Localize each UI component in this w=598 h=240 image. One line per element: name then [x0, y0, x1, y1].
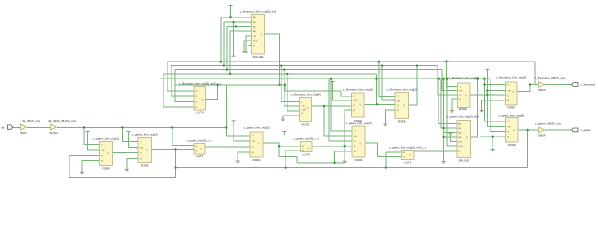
const bar x233.5 [232, 55, 236, 57]
node clk-B8 [83, 126, 85, 128]
svg-text:Q: Q [360, 104, 362, 106]
wire B9.Q to B10 pin2 [152, 148, 195, 150]
node clk-B10 [171, 126, 173, 128]
wire B16.Q to OBUF gates [518, 129, 539, 131]
ground B8.R [80, 172, 84, 173]
const bar SRL CLK [242, 51, 246, 53]
wire vertical x230 to bus4 [229, 31, 231, 74]
wire bus3 left corner into B2 pin I2 [175, 70, 194, 102]
svg-text:Q: Q [108, 153, 110, 155]
wire B3.Q to B4.D [312, 105, 352, 107]
port c_fibonacci [572, 83, 578, 87]
wire B5.CE from bus2 [382, 66, 395, 100]
node bus5-b [438, 78, 440, 80]
svg-text:Q: Q [360, 143, 362, 145]
svg-text:FDRE: FDRE [507, 105, 515, 109]
wire B3 D const stub [283, 116, 300, 119]
svg-text:c_gates: c_gates [581, 128, 592, 132]
wire bus5 y78.7 [160, 78, 490, 80]
node bus1-a [220, 61, 222, 63]
wire B8.D from bottom loop [69, 155, 175, 177]
wire B15.A1 feeder [441, 79, 457, 128]
const bar B16.CE top [485, 68, 489, 70]
wire B13.Q to B14 pin2 [365, 143, 402, 157]
buffer T1 clk_IBUF_inst [21, 124, 27, 130]
node b15-a2 [443, 136, 445, 138]
svg-text:SRL16E: SRL16E [458, 158, 469, 162]
wire SRL B1 Q out to bus6 [265, 34, 280, 85]
node b4q [376, 103, 378, 105]
wire vertical x175.5 bus6 to busB [175, 149, 177, 167]
wire B15.Q riser [471, 79, 478, 137]
wire B3.CE from bus3 [284, 70, 299, 106]
svg-text:CE: CE [354, 136, 358, 138]
const bar B11.CE [232, 120, 236, 122]
buffer T2 clk_IBUF_BUFG_inst [51, 124, 57, 130]
node bus5-f [446, 78, 448, 80]
node bus4-b [286, 73, 288, 75]
node bus2-c [381, 65, 383, 67]
const bar B4.CE [331, 81, 335, 83]
node bus5-a [376, 78, 378, 80]
wire SRL B1 D stub [249, 45, 252, 47]
port c_gates [572, 128, 578, 132]
wire B5.R to ground [385, 110, 395, 124]
wire vertical x220.8 to bus1 [220, 17, 222, 62]
svg-text:Q: Q [146, 149, 148, 151]
wire B4 CE const [333, 82, 352, 101]
wire B11.R to ground [238, 152, 250, 161]
node busB-b [175, 167, 177, 169]
node bus5-e [330, 78, 332, 80]
const bar near B12 [283, 130, 287, 132]
flip-flop B5 c_fibonacci_fsm_reg[2] [395, 93, 409, 119]
flip-flop B6 c_fibonacci_fsm_reg[3] [458, 83, 471, 108]
svg-text:c_fibonacci: c_fibonacci [581, 83, 596, 87]
svg-text:c_fibonacci_fsm_reg[2]: c_fibonacci_fsm_reg[2] [387, 88, 417, 92]
wire B4.Q to B5.D [365, 103, 396, 105]
node srl-a0 [230, 16, 232, 18]
svg-text:c_gates_fsm_reg[4]: c_gates_fsm_reg[4] [346, 121, 372, 125]
svg-text:Q: Q [307, 107, 309, 109]
svg-text:Q: Q [513, 91, 515, 93]
ground B7.R [480, 110, 484, 111]
wire SRL B1 pin A1 [224, 21, 252, 23]
const bar B15.CE [449, 133, 453, 135]
wire bus1 y61.7 [167, 61, 535, 63]
wire B11 CE const [234, 121, 250, 141]
wire clk drop to B9.C [122, 127, 138, 141]
svg-text:FDRE: FDRE [102, 166, 110, 170]
wire B12.O to B13 pin4 [312, 145, 352, 147]
wire B15.A0 feeder [439, 79, 457, 124]
svg-text:CE: CE [354, 100, 358, 102]
svg-text:clk_IBUF_BUFG_inst: clk_IBUF_BUFG_inst [48, 119, 76, 123]
svg-text:O: O [202, 100, 204, 102]
lut B2 c_fibonacci_fsm_reg[3]_srl3_i_1 [194, 87, 206, 111]
node obuf-gates [527, 129, 529, 131]
svg-text:CE: CE [508, 127, 512, 129]
svg-text:Q: Q [513, 130, 515, 132]
wire SRL B1 CE stub [246, 36, 252, 52]
lut B14 c_gates_fsm_reg[3]_srl3_i_1 [402, 151, 415, 160]
wire SRL B1 pin A0 [221, 16, 252, 18]
node bus6-a [217, 84, 219, 86]
svg-text:CE: CE [460, 91, 464, 93]
node busB-a [385, 167, 387, 169]
wire B16.R [480, 136, 506, 138]
svg-text:c_gates_fsm_reg[2]: c_gates_fsm_reg[2] [132, 133, 158, 137]
const bar B6.C [444, 60, 448, 62]
node srl-a1 [233, 21, 235, 23]
node b3q [323, 105, 325, 107]
wire B8 CE const [88, 132, 100, 150]
node bus2-a [223, 65, 225, 67]
node bus5-g [477, 78, 479, 80]
wire B14 pin1 from busB [386, 152, 402, 168]
wire bus6 y84.8 [176, 84, 286, 86]
wire B3.C from bus2 [281, 66, 299, 102]
ground B15.A3 [442, 162, 446, 163]
node b15-a1 [443, 127, 445, 129]
wire busB y168.3 [176, 167, 528, 169]
svg-text:CE: CE [253, 36, 257, 38]
wire B15.A2 stub [444, 132, 457, 134]
lut B12 c_gates_fsm[4]_i_1 [301, 142, 313, 153]
svg-text:OBUF: OBUF [538, 133, 546, 137]
ground B11.R [236, 161, 240, 162]
svg-text:c_fibonacci_OBUF_inst: c_fibonacci_OBUF_inst [535, 76, 566, 80]
wire B7.R to ground [482, 100, 506, 110]
svg-text:Q: Q [465, 95, 467, 97]
svg-text:FDCE: FDCE [302, 123, 310, 127]
svg-text:BUFG: BUFG [50, 131, 59, 135]
svg-text:CE: CE [102, 150, 106, 152]
wire B9.R to ground [127, 158, 138, 169]
wire OBUF gates output to port [545, 129, 573, 131]
ground B5.R [383, 124, 387, 125]
buffer T4 c_gates_OBUF_inst [539, 127, 545, 133]
wire B11.Q to busA [263, 143, 297, 163]
svg-text:FDRE: FDRE [355, 158, 363, 162]
node busB-c [285, 167, 287, 169]
svg-text:O: O [308, 148, 310, 150]
wire B12 pin2 riser from busB [286, 150, 301, 167]
wire B13.R from busA riser [335, 151, 352, 163]
node bus6-c [284, 84, 286, 86]
flip-flop B7 c_fibonacci_fsm_reg[0] [506, 82, 518, 105]
wire clk drop to B8.C [84, 127, 100, 144]
wire B9 CE const [129, 132, 139, 148]
ground B4.R [343, 161, 347, 162]
node bus3-a [226, 69, 228, 71]
wire vertical x328.8 bus5 to B13.D [329, 79, 352, 141]
wire B10 pin1 feeder from clk bus [172, 127, 194, 145]
node b12o [344, 145, 346, 147]
flip-flop B9 c_gates_fsm_reg[2] [138, 138, 152, 163]
wire SRL B1 pin A2 [227, 26, 252, 28]
svg-text:CE: CE [252, 141, 256, 143]
wire B16.D from bus5 [490, 79, 505, 132]
wire B4.R down to ground [345, 110, 352, 161]
svg-text:c_fibonacci_fsm_reg[0]: c_fibonacci_fsm_reg[0] [496, 76, 526, 80]
wire B6.Q to B7.D [470, 94, 506, 96]
ground B16.R [491, 149, 495, 150]
wire bus2 left corner into B2 pin I1 [171, 66, 194, 96]
node b9q [175, 148, 177, 150]
svg-text:clk: clk [1, 125, 5, 129]
wire clk bus horizontal [57, 126, 226, 128]
svg-text:Q: Q [403, 105, 405, 107]
const bar B9.CE [127, 131, 131, 133]
node b16r [492, 136, 494, 138]
svg-text:c_gates_fsm_reg[0]: c_gates_fsm_reg[0] [498, 113, 524, 117]
node bus2-b [416, 65, 418, 67]
node bus6-b [279, 84, 281, 86]
wire vertical x487.3 const to B16.CE [487, 70, 505, 127]
node b7c [483, 84, 485, 86]
srl B1 c_fibonacci_fsm_reg[3]_srl3 [252, 15, 265, 55]
svg-text:CE: CE [459, 142, 463, 144]
svg-text:CLR: CLR [302, 109, 307, 111]
wire SRL B1 pin A3 [230, 30, 252, 32]
wire B3.CLR from bus4 [287, 74, 299, 111]
svg-text:c_gates_OBUF_inst: c_gates_OBUF_inst [535, 121, 561, 125]
svg-text:Q: Q [258, 143, 260, 145]
wire bus1 right corner down to OBUF node [530, 62, 535, 85]
wire clk drop to B15.CLK [447, 79, 457, 146]
wire bus4 right corner down to B4.Q node [376, 74, 378, 104]
svg-text:FDRE: FDRE [141, 163, 149, 167]
wire IBUF to BUFG [27, 126, 51, 128]
ground B6.R [450, 111, 454, 112]
wire vertical x226.3 bus6 to B11.C [225, 85, 227, 136]
svg-text:CLK: CLK [253, 41, 258, 43]
svg-text:FDRE: FDRE [398, 119, 406, 123]
node b7ce [486, 90, 488, 92]
wire busA y162.8 [297, 162, 345, 164]
wire bus6 drop to B4.C feeder [285, 85, 351, 96]
flip-flop B8 c_gates_fsm_reg[1] [100, 142, 113, 166]
svg-text:OBUF: OBUF [538, 88, 546, 92]
node bus5-c [443, 78, 445, 80]
node busA-a [334, 162, 336, 164]
wire bus3 right corner into B6.CE [442, 70, 458, 91]
wire clk drop to B13.C [331, 79, 352, 131]
wire bus2 right corner into B6.D [438, 66, 458, 95]
wire vertical x233.5 hanging from A1 [233, 22, 235, 56]
svg-text:CLK: CLK [459, 146, 464, 148]
ground B9.R [125, 170, 129, 171]
svg-text:LUT3: LUT3 [196, 154, 204, 158]
wire vertical x323.9 B3.Q node to B13.CE [324, 106, 352, 136]
wire vertical x223.8 to bus2 [223, 22, 225, 66]
flip-flop B4 c_fibonacci_fsm_reg[1] [352, 93, 365, 117]
node bus5-d [483, 78, 485, 80]
node srl-a2 [235, 26, 237, 28]
wire B8.Q to B9.D [113, 152, 139, 154]
wire bus4 y73.9 [163, 73, 376, 75]
node bus1-b [378, 61, 380, 63]
wire B7.CE stub from x487.3 [487, 90, 505, 92]
svg-text:c_gates_fsm_reg[1]: c_gates_fsm_reg[1] [93, 137, 119, 141]
svg-text:c_fibonacci_fsm_reg[4]: c_fibonacci_fsm_reg[4] [290, 93, 320, 97]
svg-text:clk_IBUF_inst: clk_IBUF_inst [22, 119, 40, 123]
wire B6.C const [446, 61, 457, 86]
svg-text:c_fibonacci_fsm_reg[1]: c_fibonacci_fsm_reg[1] [343, 88, 373, 92]
svg-text:c_fibonacci_fsm_reg[3]_srl3: c_fibonacci_fsm_reg[3]_srl3 [240, 10, 277, 14]
svg-text:CE: CE [397, 100, 401, 102]
svg-text:IBUF: IBUF [20, 131, 27, 135]
wire B8.R to ground [82, 161, 100, 173]
svg-text:O: O [201, 149, 203, 151]
svg-text:LUT2: LUT2 [303, 152, 311, 156]
wire B5.C from bus1 [379, 62, 395, 97]
srl B15 c_gates_fsm_reg[3]_srl3 [457, 121, 471, 158]
wire B14.O to B15.D [414, 150, 457, 152]
node bus2-d [280, 65, 282, 67]
const bar B8.CE [86, 131, 90, 133]
node obuf-fib [529, 84, 531, 86]
flip-flop B11 c_gates_fsm_reg[3] [250, 132, 263, 157]
wire B7.Q to OBUF node [517, 85, 530, 92]
node clk-end [225, 126, 227, 128]
wire B5.Q riser to bus2 [409, 66, 418, 105]
svg-text:CE: CE [302, 106, 306, 108]
wire bus3 y69.6 [175, 69, 442, 71]
wire clk port to IBUF [12, 126, 21, 128]
wire bus1 left corner into B2 pin I0 [167, 62, 194, 91]
const bar above SRL B1 [229, 4, 233, 6]
wire OBUF fib output to port [545, 84, 573, 86]
svg-text:CE: CE [508, 91, 512, 93]
flip-flop B16 c_gates_fsm_reg[0] [506, 118, 519, 143]
wire B7.C stub [484, 84, 505, 86]
svg-text:c_gates_fsm_reg[3]_srl3: c_gates_fsm_reg[3]_srl3 [447, 115, 480, 119]
wire B12 pin1 from B11.Q vertical [279, 145, 301, 147]
wire B15.A3 stub [444, 136, 457, 138]
node b11q-branch [278, 145, 280, 147]
wire vertical x227 to bus3 [226, 27, 228, 70]
wire bus4 left corner into B2 pin I3 [163, 74, 194, 107]
const bar SRL CE [244, 51, 248, 53]
svg-text:Q: Q [466, 137, 468, 139]
node bus3-b [283, 69, 285, 71]
wire SRL B1 CLK stub [244, 41, 252, 52]
svg-text:FDRE: FDRE [459, 107, 467, 111]
wire const stub above SRL B1 [230, 5, 232, 17]
wire B11.C feeder horizontal [226, 135, 250, 137]
ground B3.D [281, 119, 285, 120]
wire B15.A2 feeder long vertical to ground [443, 79, 445, 162]
wire B16.R ground branch [492, 137, 494, 150]
svg-text:c_gates_fsm_reg[3]_srl3_i_1: c_gates_fsm_reg[3]_srl3_i_1 [389, 146, 427, 150]
wire B10.O to B11.D [205, 146, 250, 148]
node b6q [486, 94, 488, 96]
node bus4-a [229, 73, 231, 75]
svg-text:c_gates_fsm[3]_i_1: c_gates_fsm[3]_i_1 [186, 138, 212, 142]
svg-text:SRL16E: SRL16E [253, 55, 264, 59]
svg-text:FDRE: FDRE [508, 143, 516, 147]
svg-text:Q: Q [261, 34, 263, 36]
lut B10 c_gates_fsm[3]_i_1 [194, 144, 205, 155]
node clk-B9 [121, 126, 123, 128]
svg-text:CE: CE [140, 147, 144, 149]
wire OBUF fib input [530, 84, 539, 86]
svg-text:c_fibonacci_fsm_reg[3]: c_fibonacci_fsm_reg[3] [449, 76, 479, 80]
svg-text:c_gates_fsm[4]_i_1: c_gates_fsm[4]_i_1 [293, 137, 319, 141]
wire B15 CE const [451, 134, 458, 142]
svg-text:O: O [409, 155, 411, 157]
svg-text:c_gates_fsm_reg[3]: c_gates_fsm_reg[3] [244, 126, 270, 130]
flip-flop B3 c_fibonacci_fsm_reg[4] [300, 98, 312, 122]
svg-text:FDRE: FDRE [253, 158, 261, 162]
wire bus2 y65.6 [171, 65, 438, 67]
wire busB riser at OBUF node [527, 130, 529, 168]
flip-flop B13 c_gates_fsm_reg[4] [352, 126, 365, 157]
port clk [8, 125, 13, 129]
svg-text:LUT4: LUT4 [196, 111, 204, 115]
svg-text:c_fibonacci_fsm_reg[3]_srl3_i_: c_fibonacci_fsm_reg[3]_srl3_i_1 [179, 82, 221, 86]
wire B2.O riser to bus6 [206, 85, 218, 100]
wire B6.R to ground [452, 99, 458, 111]
buffer T3 c_fibonacci_OBUF_inst [539, 81, 545, 87]
svg-text:LUT2: LUT2 [404, 160, 412, 164]
wire vertical x484.4 B7.C to B16.C [484, 79, 505, 122]
